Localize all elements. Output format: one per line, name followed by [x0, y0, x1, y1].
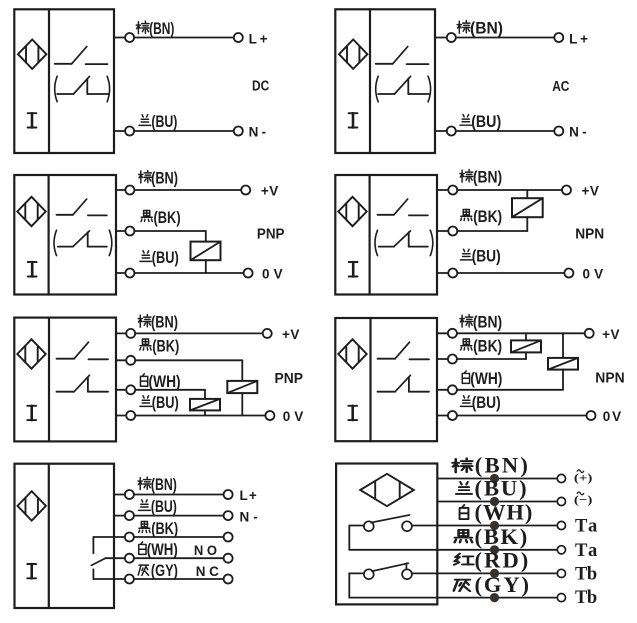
D3 NC contact symbol	[58, 231, 107, 247]
D8 inductive head symbol (wide double diamond)	[360, 474, 414, 506]
D6 terminal circle +V	[585, 329, 594, 338]
svg-text:PNP: PNP	[275, 370, 304, 387]
D4 NO contact symbol	[378, 199, 428, 215]
D7 wire BK common	[93, 536, 125, 538]
D5 WH load resistor	[190, 399, 220, 411]
svg-text:AC: AC	[552, 79, 569, 95]
D3 load resistor	[191, 242, 221, 261]
D5 wire BK load to 0V rail	[241, 393, 243, 415]
D4 inductive head symbol (double diamond)	[338, 197, 366, 226]
svg-text:+V: +V	[582, 183, 599, 198]
D1 NC contact symbol	[57, 76, 109, 94]
svg-text:Ta: Ta	[575, 517, 597, 537]
D6 label NPN	[595, 370, 624, 387]
D3 NO contact symbol	[57, 199, 107, 215]
D5 label +V	[282, 327, 299, 342]
D4 label +V	[582, 183, 599, 198]
D7 wire GY out	[134, 578, 224, 580]
D4 wire BU stub	[437, 272, 448, 274]
D6 wire BK	[457, 358, 526, 360]
D5 wire WH stub	[116, 389, 126, 391]
D8 relay arm Ta	[371, 515, 409, 523]
D6 inductive head symbol (double diamond)	[338, 339, 366, 368]
svg-text:0V: 0V	[283, 409, 304, 424]
D3 wire BU stub	[116, 272, 125, 274]
D3 terminal circle +V	[241, 186, 250, 195]
D5 NC contact symbol	[57, 375, 109, 391]
D1 wire BN to L+	[134, 37, 234, 39]
D8 BU lead label	[456, 476, 527, 501]
D4 parenthesis right	[430, 230, 433, 255]
D6 WH load resistor	[548, 358, 578, 370]
svg-text:(BU): (BU)	[151, 497, 177, 516]
D8 contact circle Ta left	[364, 521, 374, 531]
D6 wire WH	[457, 389, 563, 391]
D5 BK lead label	[140, 337, 179, 356]
D6 terminal circle BK	[448, 355, 457, 364]
svg-text:(BK): (BK)	[151, 519, 178, 538]
D3 wire BN to +V	[134, 189, 241, 191]
D2 label AC	[552, 79, 569, 95]
D2 wire BN stub	[435, 37, 447, 39]
D8 terminal circle BU	[557, 497, 565, 505]
D2 label N-	[569, 125, 587, 140]
D4 letter I marking	[349, 262, 358, 277]
D8 junction dot BU	[490, 497, 499, 506]
D5 terminal circle BN	[126, 329, 135, 338]
svg-text:N O: N O	[194, 543, 217, 558]
D6 BK lead label	[461, 337, 502, 356]
D5 label 0V	[283, 409, 304, 424]
D3 wire BU to 0V	[134, 272, 243, 274]
svg-text:DC: DC	[252, 79, 269, 95]
D7 terminal circle BK end	[224, 533, 233, 542]
svg-text:(GY): (GY)	[151, 561, 178, 580]
svg-text:(BN): (BN)	[151, 475, 177, 494]
D2 letter I marking	[349, 113, 358, 127]
D8 label Ta	[575, 541, 597, 561]
svg-text:(−): (−)	[574, 493, 593, 507]
D7 terminal circle BN	[125, 490, 134, 499]
D7 label L+	[240, 488, 257, 503]
D1 wire BU to N-	[134, 130, 234, 132]
D6 NO contact symbol	[378, 342, 430, 359]
svg-text:(BN): (BN)	[473, 168, 502, 187]
D7 inductive head symbol (double diamond)	[18, 491, 46, 520]
D6 terminal circle 0V	[587, 411, 596, 420]
D4 terminal circle BU	[448, 269, 457, 278]
svg-text:(BK): (BK)	[152, 337, 179, 356]
D4 BN lead label	[460, 168, 502, 187]
svg-text:(BU): (BU)	[152, 393, 179, 412]
svg-text:Tb: Tb	[575, 588, 597, 608]
D5 BK load resistor	[227, 381, 257, 393]
D6 wire BU to 0V	[457, 415, 587, 417]
D7 label NC	[196, 564, 219, 579]
D2 wire BU to N-	[456, 130, 554, 132]
D7 relay pole lower	[92, 569, 94, 579]
D3 terminal circle BK	[125, 227, 134, 236]
D3 label PNP	[257, 225, 285, 242]
D5 terminal circle WH	[126, 385, 135, 394]
D6 wire load1 to BK	[525, 352, 527, 359]
D8 junction dot GY	[490, 593, 499, 602]
D4 terminal circle +V	[562, 186, 571, 195]
svg-text:(BU): (BU)	[472, 247, 501, 266]
D7 wire BU to N-	[134, 515, 224, 517]
D4 label NPN	[575, 225, 604, 242]
D6 label 0V	[603, 409, 621, 424]
D8 terminal circle BN	[557, 474, 565, 482]
D8 relay arm Tb	[372, 563, 408, 571]
D3 sensor body outline	[14, 175, 116, 295]
D5 terminal circle BU	[126, 411, 135, 420]
D5 BU lead label	[140, 393, 179, 412]
D2 wire BU stub	[435, 130, 447, 132]
D6 NC contact symbol	[378, 375, 430, 391]
D7 relay movable arm	[91, 558, 105, 565]
D2 sensor internal divider	[369, 9, 371, 153]
D2 parenthesis left	[376, 76, 379, 102]
D8 BN lead label	[452, 453, 527, 478]
D3 wire BK stub	[116, 230, 125, 232]
D3 sensor internal divider	[47, 175, 49, 295]
D8 terminal circle GY	[557, 594, 565, 602]
svg-text:L+: L+	[249, 31, 268, 46]
D2 inductive head symbol (double diamond)	[339, 40, 367, 69]
D3 BK lead label	[141, 208, 181, 227]
D8 terminal circle BK	[557, 546, 565, 554]
svg-text:(BK): (BK)	[473, 207, 502, 226]
D7 sensor body outline	[15, 464, 115, 608]
svg-text:(BU): (BU)	[151, 112, 177, 131]
D6 terminal circle BN	[448, 329, 457, 338]
D7 label NO	[194, 543, 217, 558]
svg-text:(BU): (BU)	[471, 112, 501, 131]
D4 NC contact symbol	[379, 231, 428, 247]
D6 wire drop 1 from +V rail	[525, 333, 527, 340]
D4 wire BK	[457, 230, 527, 232]
D6 wire WH stub	[437, 389, 448, 391]
D2 parenthesis right	[428, 76, 431, 102]
D6 label +V	[602, 327, 619, 342]
D8 GY lead label	[454, 572, 529, 597]
D5 terminal circle 0V	[265, 411, 274, 420]
D1 letter I marking	[28, 113, 37, 127]
D2 wire BN to L+	[456, 37, 554, 39]
D5 wire BN to +V	[135, 332, 263, 334]
svg-text:+V: +V	[261, 183, 278, 198]
D3 letter I marking	[28, 262, 37, 277]
D8 relay contact Tb bracket	[349, 573, 364, 597]
D3 parenthesis left	[54, 230, 57, 255]
svg-text:N-: N-	[249, 125, 267, 140]
svg-text:(BN): (BN)	[475, 453, 528, 478]
D3 BN lead label	[139, 168, 178, 187]
D6 wire load2 to WH	[562, 370, 564, 390]
D4 wire load to BK	[526, 217, 528, 231]
D8 RD lead label	[454, 548, 528, 573]
D3 wire BN stub	[116, 189, 125, 191]
D3 inductive head symbol (double diamond)	[17, 197, 45, 226]
D2 NC contact symbol	[378, 76, 430, 94]
D2 terminal circle L+	[554, 33, 563, 42]
D6 wire BK stub	[437, 358, 448, 360]
D6 wire BU stub	[437, 415, 448, 417]
D8 BK lead label	[455, 524, 528, 549]
D8 junction dot RD	[490, 569, 499, 578]
D5 wire BU to 0V	[135, 415, 265, 417]
D5 wire BN stub	[116, 332, 126, 334]
D1 NO contact symbol	[55, 47, 108, 65]
D1 label N-	[249, 125, 267, 140]
D8 label Ta	[575, 517, 597, 537]
D4 wire BN stub	[437, 189, 448, 191]
D5 wire BK with elbow down	[135, 360, 242, 381]
D7 terminal circle GY	[125, 575, 134, 584]
svg-text:0V: 0V	[603, 409, 621, 424]
D6 terminal circle BU	[448, 411, 457, 420]
D4 wire BU to 0V	[457, 272, 564, 274]
D5 letter I marking	[27, 406, 36, 420]
svg-text:0V: 0V	[583, 266, 604, 281]
svg-text:(WH): (WH)	[475, 500, 533, 525]
D2 BU lead label	[460, 112, 501, 131]
D7 relay pole upper	[92, 537, 94, 553]
D6 BK load resistor	[511, 340, 541, 352]
D1 parenthesis left	[55, 76, 58, 102]
svg-text:(BU): (BU)	[152, 248, 179, 267]
D4 wire BK stub	[437, 230, 448, 232]
D7 label N-	[240, 509, 258, 524]
D8 label Tb	[575, 588, 597, 608]
svg-text:(BK): (BK)	[154, 208, 181, 227]
D7 GY lead label	[138, 561, 178, 580]
D8 terminal circle RD	[557, 569, 565, 577]
D7 terminal circle BU	[125, 511, 134, 520]
svg-text:(BU): (BU)	[475, 476, 527, 501]
D1 inductive head symbol (double diamond)	[18, 40, 46, 69]
D5 wire BK stub	[116, 359, 126, 361]
D4 terminal circle 0V	[564, 269, 573, 278]
D8 wire BN	[437, 478, 557, 480]
D7 terminal circle N-	[224, 511, 233, 520]
D8 junction dot BK	[490, 545, 499, 554]
D6 WH lead label	[462, 369, 502, 388]
D1 terminal circle BU	[125, 127, 134, 136]
D8 contact circle Ta right	[402, 521, 412, 531]
D7 wire WH from contact	[105, 557, 125, 559]
D8 contact circle Tb left	[364, 569, 374, 579]
D8 wire GY	[349, 597, 557, 599]
D3 terminal circle BN	[125, 186, 134, 195]
svg-text:Tb: Tb	[575, 564, 597, 584]
D7 wire GY from contact	[93, 578, 125, 580]
D6 sensor body outline	[335, 318, 437, 441]
D3 parenthesis right	[109, 230, 112, 255]
svg-text:+V: +V	[602, 327, 619, 342]
D7 WH lead label	[139, 540, 178, 559]
D4 parenthesis left	[375, 230, 378, 255]
svg-text:(BN): (BN)	[151, 313, 178, 332]
svg-text:N-: N-	[240, 509, 258, 524]
D5 BN lead label	[138, 313, 178, 332]
D4 load resistor	[512, 198, 543, 217]
D3 wire BK with elbow down to load	[134, 231, 205, 242]
D3 terminal circle 0V	[244, 269, 253, 278]
svg-text:N C: N C	[196, 564, 219, 579]
svg-text:(WH): (WH)	[470, 369, 502, 388]
D2 NO contact symbol	[376, 47, 429, 65]
D5 sensor internal divider	[48, 318, 50, 442]
D1 sensor internal divider	[48, 9, 50, 153]
svg-text:0V: 0V	[262, 266, 283, 281]
D6 BU lead label	[460, 393, 500, 412]
D8 wire WH	[412, 525, 557, 527]
D7 wire BN to L+	[134, 494, 224, 496]
svg-text:PNP: PNP	[257, 225, 285, 242]
svg-text:L+: L+	[240, 488, 257, 503]
D8 label AC plus terminal	[574, 470, 593, 485]
svg-text:(BU): (BU)	[472, 393, 501, 412]
D6 wire BN stub	[437, 332, 448, 334]
D2 BN lead label	[457, 19, 503, 38]
D5 inductive head symbol (double diamond)	[17, 339, 45, 368]
D3 terminal circle BU	[125, 269, 134, 278]
D5 WH lead label	[140, 372, 180, 391]
D4 wire drop from +V rail to load	[526, 190, 528, 198]
D8 relay contact Ta bracket	[349, 526, 364, 550]
D5 wire WH with elbow down	[135, 390, 205, 399]
D1 wire BN stub	[114, 37, 125, 39]
svg-text:(BN): (BN)	[149, 19, 174, 38]
svg-text:(GY): (GY)	[475, 572, 530, 597]
D4 sensor internal divider	[369, 175, 371, 295]
D5 terminal circle BK	[126, 356, 135, 365]
D1 sensor body outline	[14, 9, 114, 153]
D7 letter I marking	[27, 564, 36, 578]
svg-text:+V: +V	[282, 327, 299, 342]
svg-text:(BN): (BN)	[151, 168, 178, 187]
D7 terminal circle WH end	[224, 554, 233, 563]
D5 wire WH load to 0V rail	[204, 410, 206, 415]
D6 wire drop 2 from +V rail	[562, 333, 564, 358]
D3 label 0V	[262, 266, 283, 281]
D2 terminal circle BN	[447, 33, 456, 42]
D2 terminal circle BU	[447, 127, 456, 136]
D6 terminal circle WH	[448, 385, 457, 394]
svg-text:(BK): (BK)	[473, 337, 502, 356]
D8 wire BU	[437, 501, 557, 503]
D4 label 0V	[583, 266, 604, 281]
D3 wire load to 0V rail	[205, 260, 207, 273]
D5 sensor body outline	[14, 318, 116, 442]
D1 terminal circle BN	[125, 33, 134, 42]
D2 terminal circle N-	[554, 127, 563, 136]
D1 parenthesis right	[107, 76, 110, 102]
D5 wire BU stub	[116, 415, 126, 417]
svg-text:L+: L+	[569, 31, 588, 46]
D7 terminal circle BK	[125, 533, 134, 542]
svg-text:(BN): (BN)	[473, 313, 502, 332]
D8 label Tb	[575, 564, 597, 584]
D4 wire BN to +V	[457, 189, 562, 191]
D7 wire BN stub	[114, 494, 125, 496]
svg-text:(BK): (BK)	[475, 524, 528, 549]
D7 BN lead label	[138, 475, 177, 494]
D1 label DC	[252, 79, 269, 95]
svg-text:(BN): (BN)	[470, 19, 503, 38]
D7 sensor internal divider	[48, 464, 50, 608]
svg-text:NPN: NPN	[575, 225, 604, 242]
D6 sensor internal divider	[369, 318, 371, 441]
D8 device body outline	[336, 464, 437, 605]
D6 letter I marking	[348, 406, 357, 420]
D1 label L+	[249, 31, 268, 46]
D3 BU lead label	[140, 248, 179, 267]
D2 label L+	[569, 31, 588, 46]
D1 wire BU stub	[114, 130, 125, 132]
svg-text:Ta: Ta	[575, 541, 597, 561]
svg-text:NPN: NPN	[595, 370, 624, 387]
D8 terminal circle WH	[557, 521, 565, 529]
D4 sensor body outline	[335, 175, 437, 295]
D8 label AC minus terminal	[574, 492, 593, 507]
D7 wire BU stub	[114, 515, 125, 517]
D8 junction dot WH	[490, 521, 499, 530]
D1 BU lead label	[139, 112, 177, 131]
D1 terminal circle N-	[234, 127, 243, 136]
svg-text:(RD): (RD)	[475, 548, 529, 573]
svg-text:(+): (+)	[574, 471, 593, 485]
svg-text:(WH): (WH)	[147, 540, 178, 559]
D3 label +V	[261, 183, 278, 198]
D4 terminal circle BN	[448, 186, 457, 195]
D4 terminal circle BK	[448, 227, 457, 236]
svg-text:(WH): (WH)	[149, 372, 181, 391]
D8 wire RD	[412, 572, 557, 574]
D7 terminal circle WH	[125, 554, 134, 563]
D6 wire BN to +V	[457, 332, 585, 334]
D5 label PNP	[275, 370, 304, 387]
D4 BU lead label	[460, 247, 500, 266]
D7 terminal circle GY end	[224, 575, 233, 584]
D8 junction dot BN	[490, 474, 499, 483]
D5 NO contact symbol	[57, 342, 109, 359]
D6 BN lead label	[460, 313, 502, 332]
D1 terminal circle L+	[234, 33, 243, 42]
D7 BK lead label	[139, 519, 178, 538]
D4 BK lead label	[461, 207, 502, 226]
D7 wire WH out	[134, 557, 224, 559]
D7 wire BK out	[134, 536, 224, 538]
D8 WH lead label	[460, 500, 533, 525]
D8 contact circle Tb right	[402, 569, 412, 579]
D7 terminal circle L+	[224, 490, 233, 499]
svg-text:N-: N-	[569, 125, 587, 140]
D8 wire BK	[349, 549, 557, 551]
D5 terminal circle +V	[263, 329, 272, 338]
D1 BN lead label	[136, 19, 174, 38]
D2 sensor body outline	[335, 9, 435, 153]
D7 BU lead label	[139, 497, 177, 516]
